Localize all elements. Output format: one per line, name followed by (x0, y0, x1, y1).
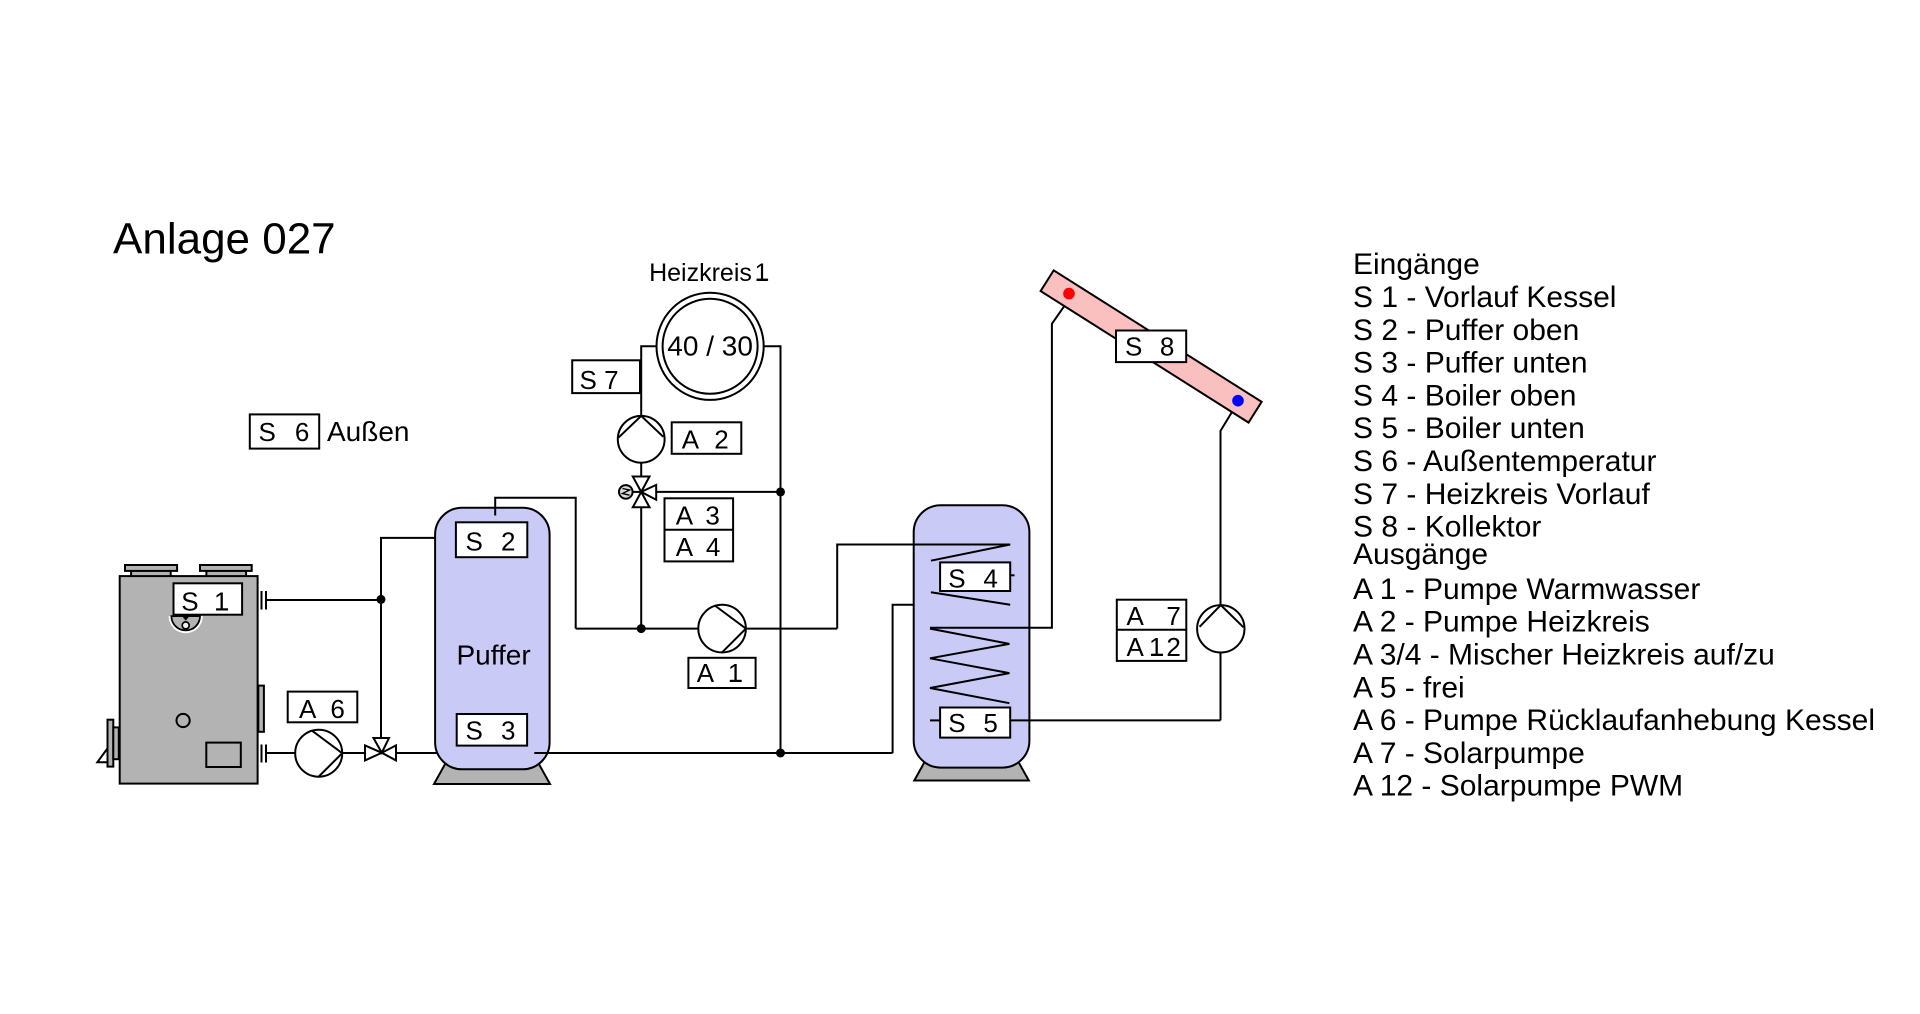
heizkreis radiator circle 40/30 (657, 293, 764, 400)
puffer tank (435, 508, 549, 770)
svg-text:2: 2 (501, 527, 515, 557)
junction node B (mixer drop on A1 line) (637, 624, 646, 633)
actuator label A 2 (672, 422, 742, 454)
collector cold port dot (blue) (1232, 395, 1244, 407)
svg-text:S: S (181, 587, 198, 617)
svg-text:A 6 - Pumpe Rücklaufanhebung K: A 6 - Pumpe Rücklaufanhebung Kessel (1353, 704, 1875, 737)
svg-text:Heizkreis: Heizkreis (649, 259, 752, 287)
base plinth of puffer tank (434, 757, 550, 784)
junction node A (boiler supply / S2 riser) (377, 595, 386, 604)
svg-text:S 5 - Boiler unten: S 5 - Boiler unten (1353, 412, 1585, 445)
svg-text:A: A (676, 532, 694, 562)
svg-text:S 6 - Außentemperatur: S 6 - Außentemperatur (1353, 445, 1657, 478)
svg-text:1: 1 (214, 587, 228, 617)
svg-text:3: 3 (705, 501, 719, 531)
wire: node A up and left into puffer S2 (381, 538, 450, 738)
base plinth of boiler tank (914, 754, 1029, 781)
wire: mixer down to A1 suction line node B (640, 507, 642, 628)
wire: collector flow down to lower coil (930, 306, 1064, 628)
pump A7 (vertical, apex up) (1197, 605, 1244, 652)
junction node C (heizkreis return / mixer) (776, 487, 785, 496)
check valve V1 (3-way) at boiler return (365, 738, 396, 760)
svg-text:1: 1 (1149, 632, 1163, 662)
svg-text:S: S (466, 716, 483, 746)
wire: A1 line riser to boiler coil top (837, 545, 1010, 629)
svg-text:2: 2 (1166, 632, 1180, 662)
sensor label S 3 (457, 714, 527, 746)
wire: riser from bottom line to boiler coil exit (893, 605, 1011, 753)
svg-text:S 7: S 7 (580, 365, 619, 395)
sensor label S 1 (174, 583, 243, 616)
svg-text:A: A (697, 658, 715, 688)
svg-text:A 5 - frei: A 5 - frei (1353, 671, 1465, 704)
svg-text:S: S (1125, 332, 1142, 362)
boiler right tab (258, 686, 264, 732)
svg-text:S 1 - Vorlauf Kessel: S 1 - Vorlauf Kessel (1353, 281, 1616, 314)
pump A1 (horizontal, apex right) (698, 605, 746, 653)
svg-text:A: A (1127, 601, 1145, 631)
actuator label A 1 (688, 658, 755, 688)
wire: bottom return line from puffer to boiler tank riser (534, 752, 892, 754)
svg-text:A 12 - Solarpumpe PWM: A 12 - Solarpumpe PWM (1353, 770, 1683, 803)
wire: stub into puffer top (495, 498, 576, 629)
wire: puffer top to pump A1 suction line (576, 628, 838, 630)
svg-text:Puffer: Puffer (457, 639, 531, 670)
svg-text:S: S (948, 708, 965, 738)
actuator label A 3 / A 4 (665, 498, 734, 562)
sensor label S 7 (572, 360, 640, 395)
svg-text:5: 5 (983, 708, 997, 738)
svg-text:S 3 - Puffer unten: S 3 - Puffer unten (1353, 347, 1588, 380)
svg-text:S: S (466, 527, 483, 557)
svg-text:6: 6 (330, 694, 344, 724)
burner symbol (169, 616, 203, 633)
junction node D (heizkreis return / bottom line) (776, 749, 785, 758)
actuator label A 6 (288, 692, 358, 724)
pump A6 (horizontal, apex right) (295, 730, 342, 777)
svg-text:A: A (682, 424, 700, 454)
svg-text:S 2 - Puffer oben: S 2 - Puffer oben (1353, 314, 1579, 347)
chimney stub right (206, 571, 246, 577)
chimney stub left (131, 571, 171, 577)
wire: solar return riser up to collector (1221, 412, 1232, 720)
svg-text:3: 3 (501, 716, 515, 746)
pump A2 (vertical, apex up) (618, 416, 665, 463)
svg-text:S 4 - Boiler oben: S 4 - Boiler oben (1353, 379, 1576, 412)
flange at boiler S1 outlet (262, 591, 267, 610)
wire: heizkreis supply from circle left down to mixer (641, 346, 656, 416)
solar collector panel (1041, 270, 1262, 422)
svg-text:40 / 30: 40 / 30 (667, 330, 753, 361)
svg-text:7: 7 (1166, 601, 1180, 631)
sensor label S 2 (456, 522, 527, 557)
svg-text:A 3/4 - Mischer Heizkreis auf/: A 3/4 - Mischer Heizkreis auf/zu (1353, 639, 1775, 672)
sensor label S 8 (1116, 331, 1186, 363)
svg-text:Außen: Außen (327, 416, 410, 447)
wire: boiler S5 to solar pump riser (1010, 719, 1220, 721)
boiler base plinth (none) / boiler Kessel body group (97, 565, 264, 784)
actuator label A 7 / A 12 (1117, 600, 1187, 662)
svg-text:Eingänge: Eingänge (1353, 248, 1480, 281)
svg-text:Ausgänge: Ausgänge (1353, 538, 1488, 571)
svg-text:1: 1 (755, 259, 769, 287)
svg-text:S: S (259, 417, 276, 447)
label box S 6 with Außen text (250, 414, 410, 448)
svg-text:4: 4 (983, 564, 997, 594)
svg-text:8: 8 (1160, 332, 1174, 362)
collector hot port dot (red) (1063, 288, 1075, 300)
svg-text:2: 2 (714, 424, 728, 454)
boiler flue flange left (97, 747, 108, 762)
sensor label S 5 (930, 708, 1010, 739)
svg-text:6: 6 (295, 417, 309, 447)
upper heat exchanger coil in boiler tank (914, 545, 1010, 605)
svg-text:A: A (299, 694, 317, 724)
svg-text:A 2 - Pumpe Heizkreis: A 2 - Pumpe Heizkreis (1353, 606, 1650, 639)
wire: heizkreis return from circle right down to node C and bottom line (764, 346, 781, 753)
legend output list Ausgänge (1353, 538, 1875, 803)
wire: mixer right port to node C (652, 491, 781, 493)
svg-text:1: 1 (728, 658, 742, 688)
svg-text:A: A (1127, 632, 1145, 662)
legend input list Eingänge (1353, 248, 1657, 543)
wire: boiler return line to puffer bottom (266, 752, 450, 754)
svg-text:4: 4 (706, 532, 720, 562)
mixer valve M1 (3-way with motor) (619, 477, 656, 508)
svg-text:A 1 - Pumpe Warmwasser: A 1 - Pumpe Warmwasser (1353, 573, 1700, 606)
svg-text:A: A (676, 501, 694, 531)
svg-text:Anlage 027: Anlage 027 (113, 215, 336, 264)
wire: boiler S1 supply to node A (266, 599, 381, 601)
sensor label S 4 (940, 562, 1014, 593)
boiler body (120, 576, 258, 784)
flange at boiler return inlet (262, 745, 267, 763)
svg-text:S 7 - Heizkreis Vorlauf: S 7 - Heizkreis Vorlauf (1353, 478, 1650, 511)
svg-text:S: S (948, 564, 965, 594)
boiler door (206, 743, 241, 767)
lower heat exchanger coil in boiler tank (930, 629, 1009, 704)
boiler peephole (177, 714, 190, 727)
hot water boiler tank (914, 505, 1030, 767)
svg-text:A 7 - Solarpumpe: A 7 - Solarpumpe (1353, 737, 1585, 770)
